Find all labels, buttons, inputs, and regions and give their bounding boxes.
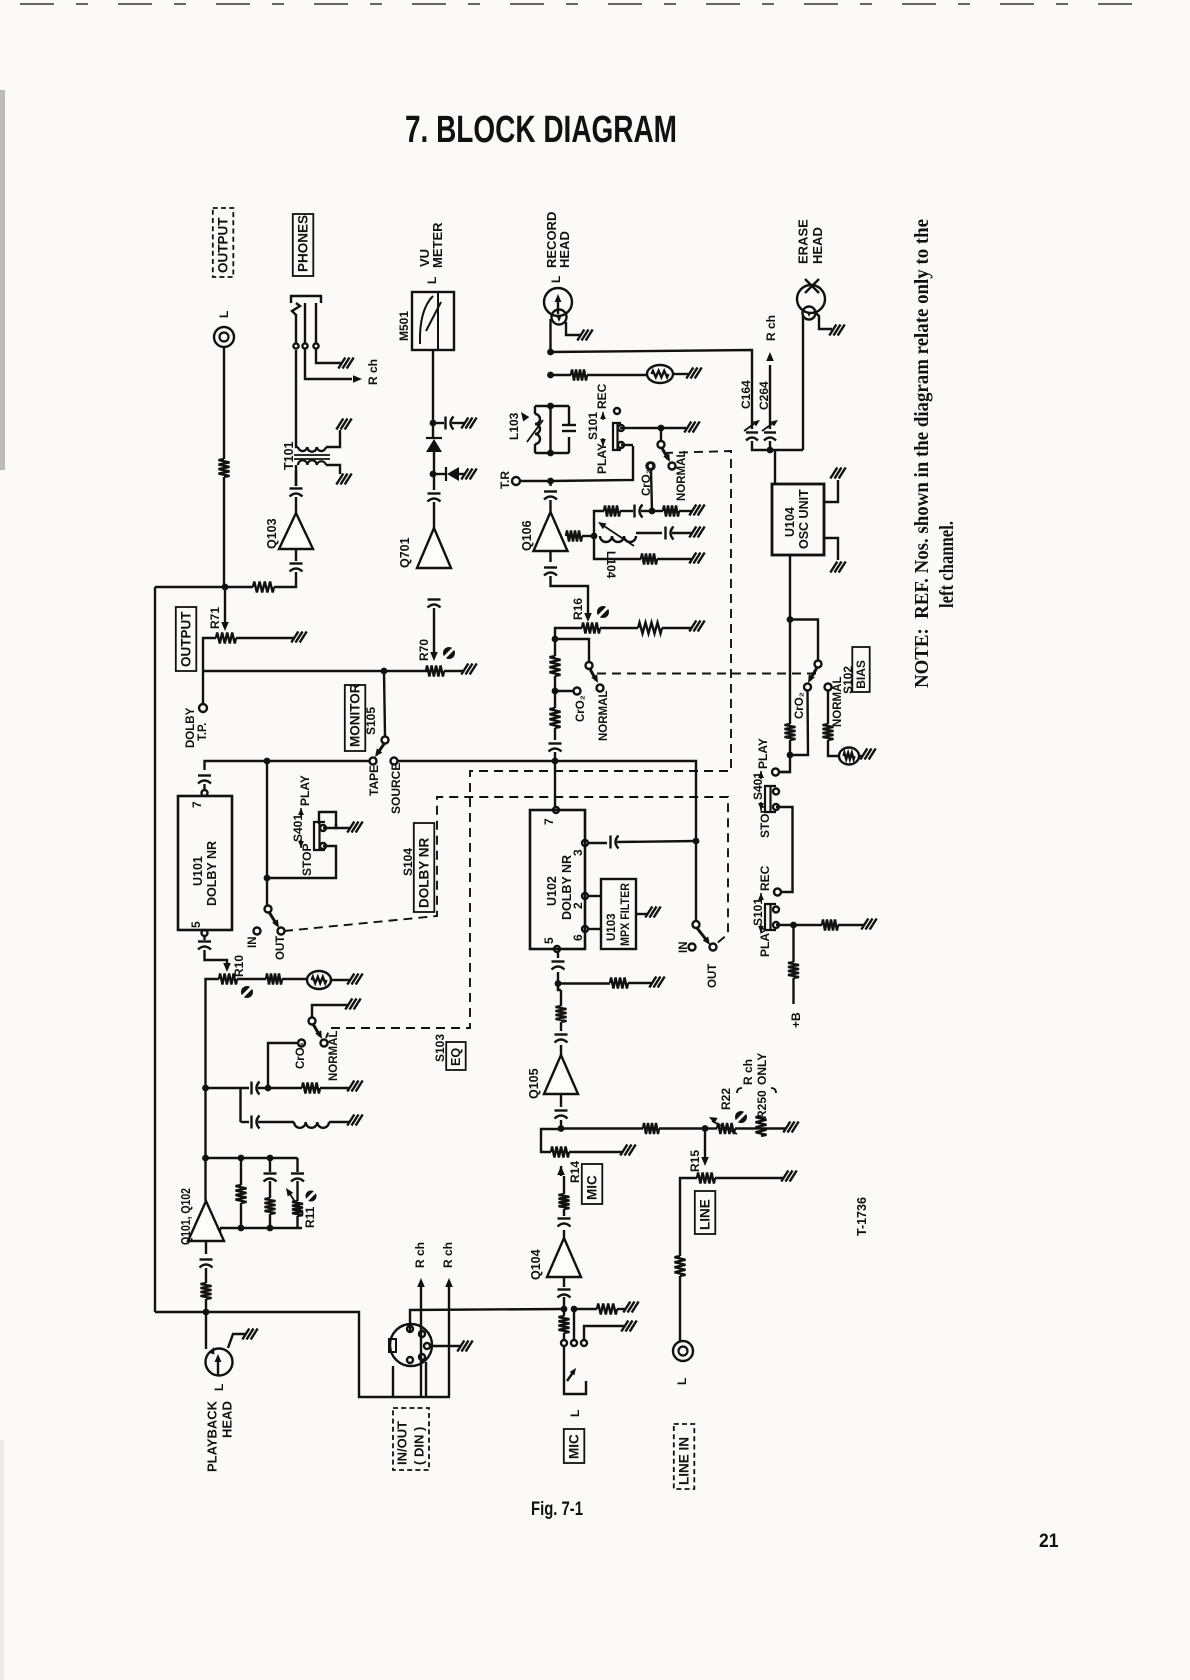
resistor (pin5 to ground) xyxy=(610,978,628,989)
node record line xyxy=(547,349,554,356)
wire to Q104 xyxy=(563,1297,565,1309)
ground fb mid xyxy=(689,527,696,538)
wire xyxy=(241,1121,250,1123)
wire xyxy=(560,1045,562,1055)
connector LINE IN L jack xyxy=(673,1341,693,1361)
test point T.R xyxy=(512,477,520,485)
wire xyxy=(240,1203,242,1228)
ground R14 xyxy=(620,1145,627,1156)
label LINE xyxy=(695,1191,716,1234)
svg-text:DOLBY NR: DOLBY NR xyxy=(560,855,574,920)
svg-text:U101: U101 xyxy=(191,856,205,886)
resistor (rec eq lower) xyxy=(550,708,561,728)
wire xyxy=(568,437,570,453)
wire xyxy=(562,424,576,426)
lever dolby (right) xyxy=(697,928,708,942)
wire xyxy=(602,412,604,420)
capacitor U101 pin7 xyxy=(198,774,211,776)
contact S105 SOURCE xyxy=(391,758,398,765)
wire xyxy=(205,1299,207,1312)
svg-text:R ch: R ch xyxy=(764,315,778,341)
label MONITOR xyxy=(345,685,366,751)
arrow S101 to PLAY xyxy=(600,439,606,446)
wire xyxy=(560,1166,562,1176)
capacitor Q105 output xyxy=(555,1109,568,1111)
resistor (output series) xyxy=(219,459,230,477)
svg-text:R22: R22 xyxy=(719,1088,733,1110)
svg-text:T.R: T.R xyxy=(498,471,512,489)
svg-text:5: 5 xyxy=(542,937,556,944)
node pin3 cap xyxy=(693,838,700,845)
wire fb rail to amp xyxy=(219,1228,221,1238)
wire xyxy=(555,690,573,692)
node R22/R15 xyxy=(702,1125,709,1132)
wire monitor rail xyxy=(203,670,428,672)
wire S401 to ground xyxy=(336,824,350,828)
svg-text:NORMAL: NORMAL xyxy=(598,691,610,741)
svg-text:R250: R250 xyxy=(755,1090,769,1119)
capacitor xyxy=(746,431,758,433)
wire R71 to ground xyxy=(236,637,294,639)
adjust arrow R11 xyxy=(288,1191,303,1214)
wire xyxy=(206,1087,250,1089)
node junction xyxy=(267,1155,274,1162)
arrow R ch (record) xyxy=(766,352,774,361)
inductor L104 (adjustable) xyxy=(600,536,636,542)
IC U103 MPX FILTER xyxy=(601,879,636,949)
node diode junction xyxy=(430,471,437,478)
node CrO2 eq stub xyxy=(265,1085,272,1092)
wire xyxy=(549,481,551,486)
wire xyxy=(641,510,651,512)
wire R15 left down xyxy=(680,1178,697,1256)
wire xyxy=(225,586,253,588)
capacitor playback input xyxy=(200,1258,213,1260)
svg-text:L: L xyxy=(549,276,563,283)
wire xyxy=(549,500,551,512)
wire xyxy=(331,979,350,981)
node U102 pin5 net xyxy=(555,980,562,987)
wire R10 left down xyxy=(206,979,220,1088)
contact mic 3 xyxy=(581,1340,587,1346)
trimmer mark R70 xyxy=(443,647,455,659)
svg-text:left channel.: left channel. xyxy=(936,521,958,608)
svg-text:T.P.: T.P. xyxy=(197,723,209,741)
record head shield circle xyxy=(552,310,567,325)
wire xyxy=(672,532,692,534)
capacitor (fb mid) xyxy=(664,527,666,540)
wire xyxy=(762,421,776,431)
wire xyxy=(296,1181,298,1201)
capacitor fb2 xyxy=(264,1172,277,1174)
node VU cap xyxy=(430,420,437,427)
inductor (playback eq) xyxy=(294,1122,329,1128)
lever S102 xyxy=(810,668,817,681)
svg-text:L: L xyxy=(568,1410,582,1417)
ground R70 xyxy=(461,664,468,675)
wire playback/din rail xyxy=(155,1312,450,1397)
svg-text:U102: U102 xyxy=(545,876,559,906)
wire xyxy=(563,1176,565,1194)
wire xyxy=(695,841,697,921)
svg-text:STOP: STOP xyxy=(758,806,772,838)
wire xyxy=(562,430,576,432)
wire DIN pin stub left xyxy=(392,1366,394,1397)
contact phones sleeve xyxy=(313,343,318,348)
capacitor Q106 input xyxy=(544,490,557,492)
resistor +B feed xyxy=(788,962,799,978)
arrow S105 lever xyxy=(375,749,382,758)
arrow R70 wiper xyxy=(430,652,438,661)
ground VU cap xyxy=(461,418,468,429)
trimmer mark R22 xyxy=(735,1111,747,1123)
svg-text:NORMAL: NORMAL xyxy=(676,451,688,501)
wire xyxy=(620,427,633,429)
contact S101 upper xyxy=(618,425,624,431)
wire xyxy=(761,1127,786,1129)
pin 7 U101 xyxy=(202,790,208,796)
contact NORMAL (S102) xyxy=(825,684,832,691)
label EQ xyxy=(446,1042,466,1070)
node C164/C264 xyxy=(767,447,774,454)
arrow S101r to REC xyxy=(758,893,764,900)
resistor (line mix) xyxy=(643,1123,659,1134)
wire xyxy=(705,1127,717,1129)
arrow S101 to REC xyxy=(600,412,606,419)
potentiometer R11 xyxy=(292,1201,303,1216)
capacitor Q106 to R16 xyxy=(544,566,557,568)
wire U104 ground lower xyxy=(824,538,838,560)
wire xyxy=(563,1277,565,1287)
inductor L103 xyxy=(535,414,540,444)
wire output node down xyxy=(224,587,226,622)
wire xyxy=(838,924,864,926)
wire xyxy=(258,1121,294,1123)
resistor bias (CrO2) xyxy=(785,724,796,740)
contact OUT (right) xyxy=(710,944,717,951)
contact S101 REC (open) xyxy=(614,408,620,414)
wire xyxy=(662,627,692,629)
arrow R ch (phones) xyxy=(353,375,362,383)
wire bias column xyxy=(789,620,791,725)
contact NORMAL (playback eq) xyxy=(321,1040,328,1047)
contact circle xyxy=(206,1349,233,1376)
diode (VU rectifier, series) xyxy=(426,439,442,452)
wire xyxy=(320,1087,350,1089)
wire xyxy=(294,458,330,460)
svg-text:LINE: LINE xyxy=(698,1199,713,1230)
resistor (R10 to lamp) xyxy=(266,974,282,985)
svg-text:R ch: R ch xyxy=(366,359,380,385)
wire T101 sec left up xyxy=(296,420,298,447)
capacitor eq row2 xyxy=(250,1116,252,1129)
op-amp Q106 xyxy=(534,512,568,551)
wire xyxy=(602,438,604,446)
wire Q103 to cap xyxy=(295,497,297,513)
wire xyxy=(269,1214,271,1228)
wire erase head ground lead xyxy=(814,311,832,329)
ground mic rail xyxy=(623,1302,630,1313)
capacitor Q701 output xyxy=(428,598,441,600)
ground bias lamp xyxy=(860,749,867,760)
arrow playback head gap xyxy=(215,1354,222,1362)
arrow R14 wiper xyxy=(557,1166,565,1175)
arrow dolby lever (left) xyxy=(272,919,279,928)
node L103 top xyxy=(547,403,554,410)
wire R71 left end down xyxy=(203,638,216,671)
lamp/fuse (record line) xyxy=(647,365,673,383)
svg-text:6: 6 xyxy=(571,934,585,941)
lever S105 xyxy=(377,744,384,754)
trimmer mark R11 xyxy=(306,1191,317,1202)
wire rail to U102 pin7 xyxy=(554,761,556,807)
wire xyxy=(326,451,731,1038)
node +B feed xyxy=(790,922,797,929)
wire xyxy=(794,924,823,926)
potentiometer R10 xyxy=(219,974,237,985)
wire xyxy=(859,755,863,757)
svg-text:PHONES: PHONES xyxy=(296,215,311,272)
svg-text:2: 2 xyxy=(571,902,585,909)
wire xyxy=(203,936,205,940)
arrow S401r to STOP xyxy=(758,803,764,810)
svg-text:C164: C164 xyxy=(739,380,753,409)
wire xyxy=(284,797,728,944)
arrow S401 to PLAY xyxy=(298,808,304,815)
wire xyxy=(535,405,569,407)
wire xyxy=(779,771,790,773)
switch S101 (right) xyxy=(765,904,776,930)
switch S401 (right) xyxy=(765,786,776,812)
node mic rail 2 xyxy=(571,1306,578,1313)
adjust arrow L103 xyxy=(527,420,543,442)
svg-text:Q104: Q104 xyxy=(529,1249,543,1280)
resistor (record line) xyxy=(571,370,587,381)
svg-text:MONITOR: MONITOR xyxy=(348,683,363,747)
wire xyxy=(433,608,435,652)
wire xyxy=(549,406,551,453)
wire record head down xyxy=(549,319,551,352)
ground eq row2 xyxy=(347,1115,354,1126)
trimmer mark R10 xyxy=(241,986,253,998)
label OUTPUT xyxy=(213,208,234,277)
svg-text:R11: R11 xyxy=(303,1206,317,1228)
wire xyxy=(217,1357,219,1376)
svg-text:R14: R14 xyxy=(568,1161,582,1183)
wire xyxy=(269,1158,271,1172)
wire xyxy=(534,444,536,453)
svg-text:HEAD: HEAD xyxy=(220,1401,235,1438)
op-amp Q105 xyxy=(544,1055,578,1094)
ground S401 (left) xyxy=(347,822,354,833)
wire xyxy=(534,406,536,414)
arrowhead xyxy=(709,1117,718,1124)
node rec CrO2 tap xyxy=(552,688,559,695)
wire phones contact 1 xyxy=(295,314,297,343)
arrowhead xyxy=(771,420,778,426)
svg-text:PLAY: PLAY xyxy=(756,738,770,769)
capacitor U101 pin5 xyxy=(198,940,211,942)
node tape rail / S401 xyxy=(264,758,271,765)
wire S101 to bias switch node xyxy=(633,427,661,429)
svg-text:Q106: Q106 xyxy=(520,520,534,551)
wire xyxy=(292,303,300,315)
pin 2 U102 xyxy=(582,893,588,899)
trimmer mark R16 xyxy=(597,606,609,618)
svg-text:MIC: MIC xyxy=(567,1434,582,1459)
capacitor xyxy=(764,431,776,433)
capacitor Q103 input xyxy=(290,487,303,489)
node bias CrO2 xyxy=(787,752,794,759)
wire xyxy=(564,1369,586,1394)
wire R70 to ground xyxy=(444,670,464,672)
contact circle xyxy=(390,1324,432,1366)
wire xyxy=(300,840,302,848)
erase head shield circle xyxy=(803,307,816,320)
contact S401 lower (left) xyxy=(320,843,326,849)
node junction xyxy=(267,1225,274,1232)
wire xyxy=(563,1346,565,1369)
ground VU diode xyxy=(461,469,468,480)
svg-text:7: 7 xyxy=(542,818,556,825)
svg-text:R15: R15 xyxy=(688,1150,702,1172)
svg-text:OUT: OUT xyxy=(275,936,287,960)
wire xyxy=(657,558,692,560)
svg-text:TAPE: TAPE xyxy=(367,765,381,796)
svg-text:Q101, Q102: Q101, Q102 xyxy=(179,1188,193,1245)
pin DIN 1 xyxy=(407,1326,413,1332)
node junction xyxy=(238,1225,245,1232)
wire xyxy=(329,1121,350,1123)
resistor playback input xyxy=(201,1283,212,1299)
node fb top rail xyxy=(202,1155,209,1162)
test point DOLBY T.P. xyxy=(199,704,207,712)
capacitor eq row1 xyxy=(250,1082,252,1095)
contact S105 pivot xyxy=(382,737,389,744)
wire mic contact3 ground xyxy=(584,1326,624,1340)
svg-text:SOURCE: SOURCE xyxy=(389,763,403,814)
svg-text:OUT: OUT xyxy=(707,964,719,988)
IC U102 DOLBY NR xyxy=(530,810,585,949)
wire xyxy=(789,740,791,755)
pin DIN 3 xyxy=(407,1357,413,1363)
arrowhead xyxy=(286,1188,293,1197)
svg-text:T-1736: T-1736 xyxy=(855,1197,869,1236)
potentiometer R16 xyxy=(582,623,600,634)
wire R16 left end xyxy=(555,628,582,639)
arrow bias lever xyxy=(663,453,670,462)
node record resistor xyxy=(547,372,554,379)
svg-text:U104: U104 xyxy=(783,507,797,537)
svg-text:REC: REC xyxy=(758,865,772,891)
ground record head xyxy=(577,330,584,341)
resistor xyxy=(717,1123,735,1134)
arrow R ch 2 xyxy=(445,1278,453,1287)
label OUTPUT xyxy=(176,607,197,671)
wire xyxy=(661,427,686,429)
wire C264 to R ch arrow xyxy=(769,365,771,429)
wire xyxy=(294,454,330,456)
wire xyxy=(300,808,302,816)
lever dolby (left) xyxy=(269,912,277,925)
svg-text:R16: R16 xyxy=(571,598,585,620)
wire xyxy=(557,984,559,991)
wire xyxy=(760,925,762,933)
wire xyxy=(296,1158,298,1172)
svg-text:EQ: EQ xyxy=(449,1048,463,1066)
wire xyxy=(673,373,689,375)
wire xyxy=(560,1022,562,1031)
svg-text:DOLBY NR: DOLBY NR xyxy=(417,837,432,908)
wire xyxy=(563,1209,565,1216)
wire phones contact 3 xyxy=(315,303,317,343)
wire output jack down xyxy=(223,347,225,459)
svg-text:MIC: MIC xyxy=(585,1175,600,1200)
wire phones to ground xyxy=(316,349,341,363)
wire eq CrO2 stub xyxy=(268,1043,298,1088)
wire xyxy=(769,441,771,450)
wire S401/dolby switch column xyxy=(266,761,268,905)
wire xyxy=(587,374,647,376)
svg-text:L: L xyxy=(217,311,231,318)
resistor Q104 output xyxy=(559,1194,570,1209)
wire xyxy=(760,802,762,810)
wire xyxy=(679,510,692,512)
svg-text:METER: METER xyxy=(430,222,445,268)
resistor (R16 to ground) xyxy=(638,623,662,634)
svg-text:R71: R71 xyxy=(208,607,222,629)
wire xyxy=(557,952,559,958)
wire xyxy=(574,1308,597,1310)
wire pin2 to U103 xyxy=(588,895,601,897)
wire pin5 to R10 xyxy=(205,950,228,965)
contact phones ring xyxy=(302,343,307,348)
wire xyxy=(704,1129,706,1158)
ground R15 xyxy=(781,1171,788,1182)
ground S101 right xyxy=(861,919,868,930)
wire Q101 input xyxy=(205,1241,207,1254)
wire xyxy=(205,1312,207,1349)
resistor bias (NORMAL) xyxy=(823,724,834,740)
svg-text:REC: REC xyxy=(595,383,609,409)
contact phones tip xyxy=(293,343,298,348)
ground U104 lower xyxy=(830,562,837,573)
capacitor U102 pin5 xyxy=(552,960,565,962)
pin 5 U101 xyxy=(202,930,208,936)
ground playback lamp xyxy=(347,974,354,985)
capacitor Q104 output xyxy=(558,1217,571,1219)
wire xyxy=(735,1127,754,1129)
svg-text:MPX FILTER: MPX FILTER xyxy=(620,882,632,946)
wire rail to U101 pin7 xyxy=(205,761,238,770)
svg-text:3: 3 xyxy=(571,849,585,856)
arrowhead xyxy=(753,420,760,426)
svg-text:CrO₂: CrO₂ xyxy=(295,1042,307,1069)
node rail / U102 pin7 xyxy=(552,758,559,765)
wire xyxy=(549,551,551,562)
contact CrO2 (playback eq) xyxy=(298,1040,305,1047)
svg-text:ERASE: ERASE xyxy=(796,219,811,264)
wire xyxy=(760,893,762,901)
wire xyxy=(754,1127,761,1129)
svg-text:M501: M501 xyxy=(397,311,411,341)
wire xyxy=(760,771,762,779)
arrow S401 to STOP xyxy=(298,841,304,848)
svg-text:PLAY: PLAY xyxy=(298,775,312,806)
wire xyxy=(597,673,820,675)
lamp/fuse (playback) xyxy=(307,971,331,989)
wire to output node xyxy=(223,477,225,587)
